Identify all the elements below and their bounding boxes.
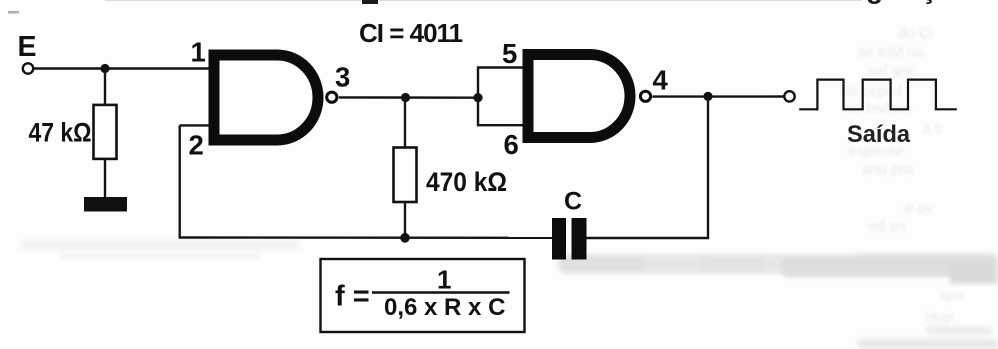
svg-text:E: E — [18, 31, 37, 63]
junction R2/bottom wire — [400, 233, 410, 243]
ground — [84, 197, 127, 212]
svg-text:a o: a o — [922, 120, 943, 137]
svg-text:anu pro: anu pro — [862, 161, 913, 178]
svg-text:CI = 4011: CI = 4011 — [359, 18, 463, 48]
wire input E to pin 1 — [34, 67, 210, 69]
wire bottom feedback right — [587, 237, 710, 239]
inverter bubble U1b — [640, 91, 650, 101]
svg-text:Saída: Saída — [847, 121, 910, 148]
wire junction to resistor R2 — [404, 98, 406, 150]
svg-text:g: g — [866, 0, 883, 4]
resistor R1 47 kΩ — [94, 105, 117, 159]
junction pin3/tie — [473, 93, 482, 102]
formula box — [321, 259, 525, 332]
svg-text:laup: laup — [925, 309, 953, 326]
wire pin 3 to gate 2 inputs — [339, 96, 478, 99]
terminal output — [784, 91, 794, 101]
wire pin 5 stub — [477, 66, 526, 68]
svg-text:se toM na: se toM na — [858, 44, 925, 61]
svg-text:4: 4 — [653, 65, 669, 96]
svg-text:1: 1 — [191, 37, 206, 68]
wire bottom feedback left — [179, 236, 553, 239]
wire left feedback vertical — [178, 125, 180, 237]
NAND gate U1a — [214, 55, 318, 140]
svg-text:ed sn: ed sn — [868, 218, 905, 235]
svg-text:47 kΩ: 47 kΩ — [29, 118, 92, 148]
wire tie pins 5-6 — [477, 68, 479, 126]
resistor R2 470 kΩ — [394, 148, 417, 203]
svg-text:e ov: e ov — [905, 200, 934, 217]
svg-text:C: C — [564, 188, 582, 216]
square wave output symbol — [799, 80, 957, 110]
svg-text:470 kΩ: 470 kΩ — [426, 167, 507, 197]
svg-text:2: 2 — [189, 129, 204, 160]
svg-text:f =: f = — [335, 281, 370, 313]
wire pin 4 to output terminal — [652, 95, 784, 97]
junction input/R1 — [100, 64, 109, 73]
inverter bubble U1a — [327, 92, 337, 102]
svg-text:5: 5 — [502, 38, 517, 69]
svg-text:ç: ç — [921, 0, 937, 4]
terminal E (input) — [23, 63, 33, 73]
wire right feedback vertical — [707, 96, 709, 238]
junction output/feedback — [703, 92, 712, 101]
svg-text:mi cepsd: mi cepsd — [842, 83, 902, 100]
NAND gate U1b — [528, 55, 630, 138]
svg-text:0,6 x R x C: 0,6 x R x C — [384, 294, 505, 321]
wire resistor R2 to bottom — [404, 202, 406, 238]
svg-text:1: 1 — [437, 265, 451, 295]
svg-text:sel aric: sel aric — [868, 63, 916, 80]
capacitor C plate right — [572, 218, 587, 260]
junction pin3/R2 — [401, 93, 410, 102]
wire pin 6 stub — [477, 124, 526, 126]
svg-text:3: 3 — [335, 61, 350, 92]
formula fraction bar — [372, 291, 510, 294]
capacitor C plate left — [552, 218, 566, 260]
svg-text:6: 6 — [504, 129, 519, 160]
wire resistor R1 to ground — [104, 159, 106, 198]
wire pin 2 stub — [180, 124, 210, 126]
svg-text:do Ci: do Ci — [898, 25, 933, 42]
svg-text:spo: spo — [940, 287, 964, 304]
wire junction to resistor R1 — [104, 69, 106, 106]
